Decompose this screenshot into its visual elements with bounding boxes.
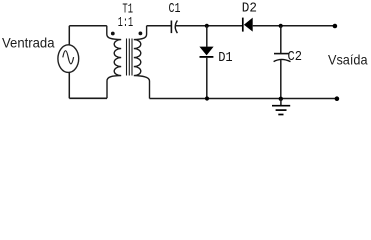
transformer T1 primary winding [107,26,121,99]
node output terminal dot bottom [335,96,340,101]
transformer T1 core lines [127,39,133,76]
wire secondary top to C1 [147,25,171,27]
wire D1 branch lower [206,58,208,99]
node output terminal dot top [333,24,338,29]
capacitor C2 straight plate [274,53,289,55]
capacitor C2 curved plate [274,59,291,61]
diode D2 triangle [244,18,253,32]
wire source bottom lead [68,72,70,98]
svg-text:1:1: 1:1 [118,15,133,31]
transformer T1 phase dot right [139,32,143,36]
node junction dot (D1 branch, top) [205,24,209,28]
svg-text:Vsaída: Vsaída [328,52,368,68]
wire C2 branch lower [280,60,282,99]
sine wave inside source [63,51,74,64]
voltage source V1 (AC source circle) [58,45,79,73]
diode D1 cathode bar [200,56,214,58]
wire primary bottom rail [69,97,107,99]
transformer T1 secondary winding [134,26,150,99]
transformer T1 phase dot left [111,32,115,36]
svg-text:C1: C1 [169,1,181,17]
wire source top lead [68,26,70,45]
wire D1 branch upper [206,26,208,47]
wire C1 to D2 [175,25,242,27]
capacitor C1 straight plate [170,21,172,34]
svg-text:C2: C2 [288,49,303,65]
diode D1 triangle [199,47,213,56]
wire D2 to output top [253,25,335,27]
svg-text:D1: D1 [218,50,233,66]
ground symbol [272,106,290,115]
wire C2 branch upper [280,26,282,53]
ground stub wire [280,99,282,106]
node junction dot (C2 branch, top) [279,24,283,28]
svg-text:D2: D2 [242,1,257,17]
capacitor C1 curved plate [175,21,177,34]
wire primary top rail [69,25,107,27]
diode D2 cathode bar [242,18,244,32]
svg-text:Ventrada: Ventrada [2,35,55,51]
node junction dot (D1 branch, bottom) [205,96,209,100]
node junction dot (ground / C2 bottom) [279,97,283,101]
wire secondary bottom rail [150,98,337,100]
